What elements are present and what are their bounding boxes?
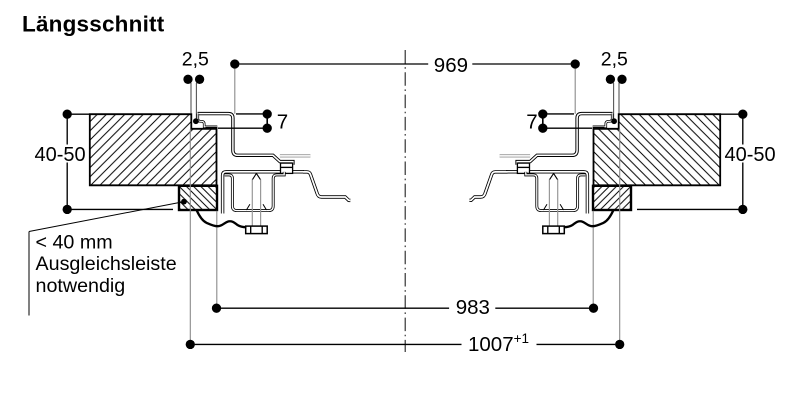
worktop cross-section (hatched, with rebate) bbox=[90, 114, 217, 185]
svg-text:notwendig: notwendig bbox=[36, 275, 126, 297]
dim line 1007 bbox=[195, 343, 616, 345]
note bracket line bbox=[29, 202, 184, 316]
glass underside step seated in worktop rebate bbox=[198, 114, 218, 127]
chassis top with left lip bbox=[223, 172, 304, 214]
dim 983 end dot bbox=[212, 304, 221, 313]
right appliance side wing (Z-profile) bbox=[469, 172, 507, 200]
shaft gussets at U bottom bbox=[246, 204, 266, 210]
leveling strip (Ausgleichsleiste, hatched) bbox=[179, 186, 217, 210]
small gap reference dot 2,5 bbox=[193, 118, 199, 124]
svg-text:969: 969 bbox=[434, 54, 468, 77]
clamp screw shaft with tip bbox=[252, 173, 260, 179]
dim 2,5 dots bbox=[183, 75, 192, 84]
svg-text:983: 983 bbox=[456, 296, 490, 319]
screw head bbox=[246, 226, 268, 234]
right assembly (mirror of left) bbox=[500, 59, 748, 349]
svg-text:2,5: 2,5 bbox=[182, 48, 209, 70]
svg-text:40-50: 40-50 bbox=[35, 144, 86, 166]
cooktop edge trim profile (glass edge + outer wall + flange) bbox=[198, 114, 293, 165]
dim 40-50 top leader + dot bbox=[67, 113, 90, 115]
dim drop line 983 (left) bbox=[216, 211, 218, 308]
support rail (grey) bbox=[280, 154, 311, 157]
foam seal (wavy line) bbox=[197, 210, 247, 227]
ribbed clamp block bbox=[281, 163, 293, 173]
svg-text:2,5: 2,5 bbox=[601, 48, 628, 70]
trim foot in rebate bbox=[206, 127, 218, 129]
svg-text:7: 7 bbox=[526, 110, 537, 133]
dim drop lines 2,5 bbox=[190, 83, 192, 114]
svg-text:< 40 mm: < 40 mm bbox=[36, 232, 113, 254]
svg-text:Ausgleichsleiste: Ausgleichsleiste bbox=[36, 253, 177, 275]
svg-text:1007+1: 1007+1 bbox=[468, 331, 529, 356]
dim 40-50 bottom leader + dot bbox=[67, 208, 173, 210]
reference dot on left leveling strip bbox=[181, 199, 187, 205]
dim drop line 969 (left) bbox=[234, 67, 236, 114]
dim 969 end dot bbox=[230, 59, 239, 68]
dim drop line 1007 (left) bbox=[189, 130, 191, 345]
left assembly group (reused mirrored for right side) bbox=[63, 59, 311, 349]
dim line 969 bbox=[239, 63, 571, 65]
left appliance side wing (Z-profile) bbox=[303, 172, 350, 201]
dim line 983 bbox=[221, 307, 590, 309]
dim 40-50 vertical line bbox=[66, 119, 68, 206]
center line (dash-dot) bbox=[404, 50, 406, 352]
svg-text:7: 7 bbox=[277, 110, 288, 133]
dim 7 leaders + dots bbox=[236, 113, 267, 115]
dim 1007 end dot bbox=[186, 340, 195, 349]
svg-text:40-50: 40-50 bbox=[725, 144, 776, 166]
fixing clamp U-bracket with hooked ledges bbox=[225, 172, 285, 211]
svg-text:Längsschnitt: Längsschnitt bbox=[22, 12, 165, 37]
